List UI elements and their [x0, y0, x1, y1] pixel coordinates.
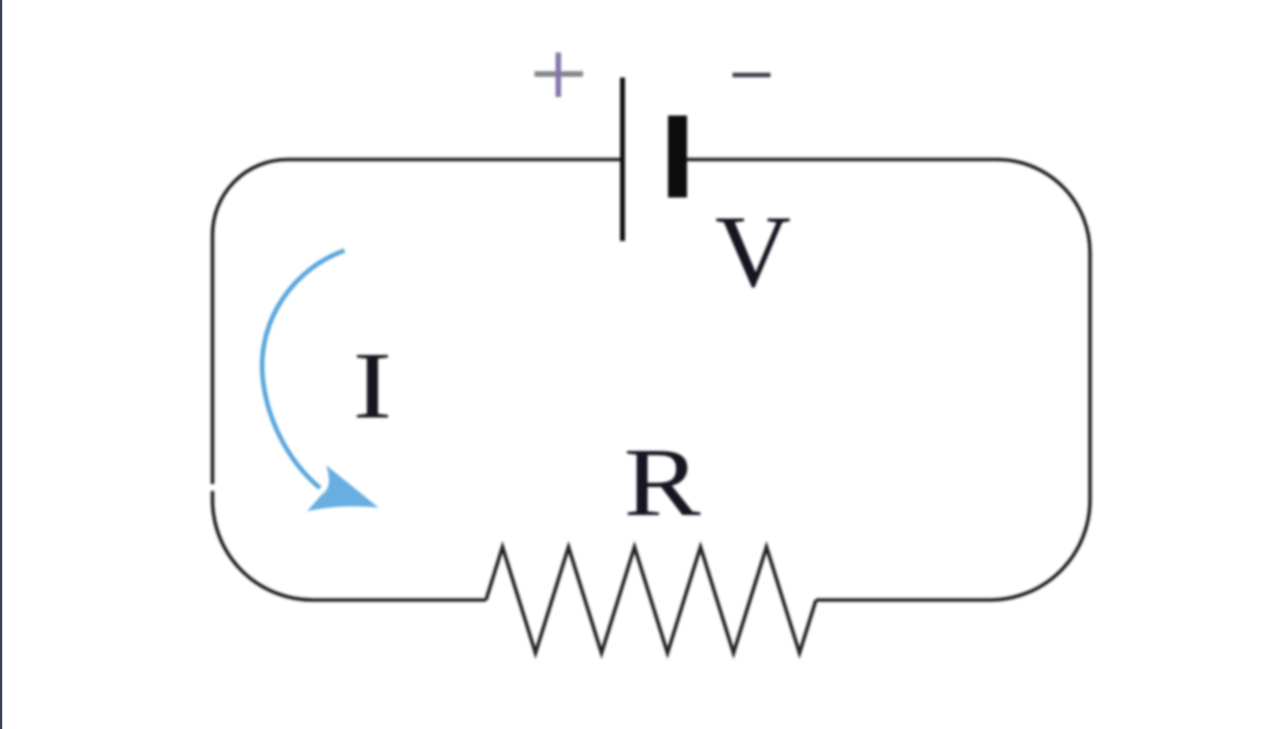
wire bottom-left segment (left side to resistor) [213, 491, 487, 600]
svg-text:V: V [715, 195, 791, 309]
battery V short thick plate (negative) [668, 116, 687, 198]
wire top-left segment (battery + terminal to left side) [213, 160, 622, 485]
svg-text:R: R [624, 429, 702, 537]
page left edge line (scan artifact) [0, 0, 2, 729]
wire bottom-right segment (resistor to battery - terminal) [687, 160, 1090, 601]
current direction arrow I (curved, blue) [262, 251, 377, 511]
svg-text:I: I [353, 333, 393, 439]
resistor R zigzag body [486, 547, 816, 653]
battery V long plate (positive) [620, 78, 625, 242]
label - (battery negative) [733, 73, 771, 78]
label + (battery positive) [535, 53, 584, 98]
